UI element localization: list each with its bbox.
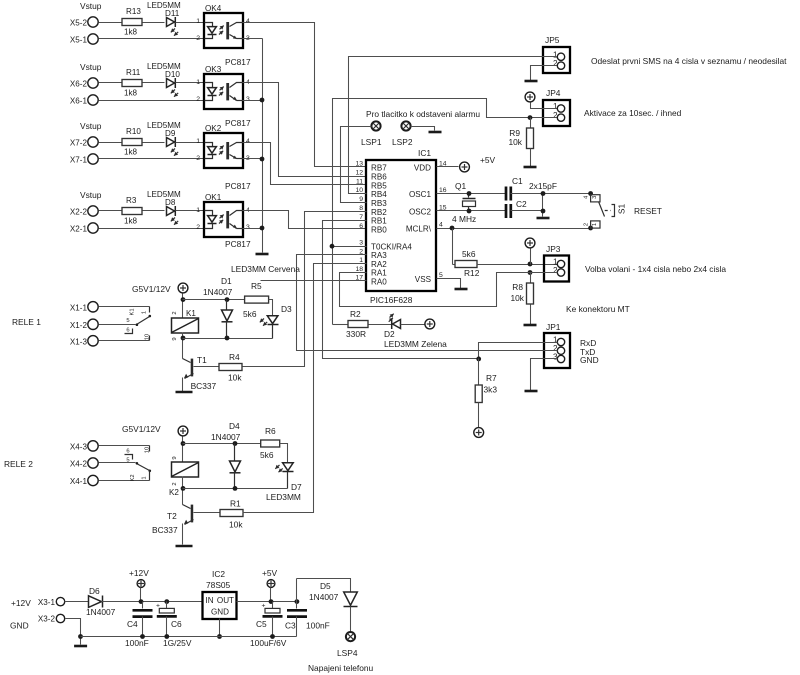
wire IC1 T0CKI tap to JP4 net (333, 246, 367, 248)
svg-text:1k8: 1k8 (124, 28, 138, 37)
svg-text:RA3: RA3 (371, 251, 387, 260)
node junction MCLR R12 (450, 226, 455, 231)
svg-text:10: 10 (355, 187, 363, 194)
ground T1 (176, 391, 193, 394)
svg-text:16: 16 (439, 187, 447, 194)
wire OK1 pin4 to IC1 RB0 (243, 211, 367, 229)
svg-text:5k6: 5k6 (462, 249, 476, 259)
svg-text:VSS: VSS (415, 275, 432, 284)
svg-text:RB7: RB7 (371, 163, 387, 172)
svg-text:T1: T1 (197, 355, 207, 365)
wire R1 to IC1 RA2 (243, 264, 367, 513)
svg-text:X2-2: X2-2 (70, 208, 88, 217)
svg-text:D7: D7 (291, 482, 302, 492)
svg-text:Vstup: Vstup (80, 1, 102, 11)
capacitor C3 100nF (296, 579, 298, 609)
node junction JP3 pin1 (528, 262, 533, 267)
svg-text:OK3: OK3 (205, 65, 222, 74)
svg-text:1: 1 (196, 18, 200, 25)
relay contact K1 (99, 306, 150, 308)
svg-text:X5-2: X5-2 (70, 19, 88, 28)
svg-text:RA1: RA1 (371, 269, 387, 278)
svg-text:Q1: Q1 (455, 181, 467, 191)
svg-text:100nF: 100nF (125, 638, 149, 648)
ground LSP2 (429, 131, 442, 134)
wire K1 coil bottom (182, 333, 184, 359)
svg-text:1k8: 1k8 (124, 89, 138, 98)
svg-text:X3-1: X3-1 (38, 598, 56, 607)
svg-text:D9: D9 (165, 129, 176, 138)
svg-text:1N4007: 1N4007 (203, 287, 233, 297)
svg-text:Vstup: Vstup (80, 121, 102, 131)
svg-text:4: 4 (246, 18, 250, 25)
svg-text:3: 3 (592, 196, 598, 199)
switch S1 RESET (588, 191, 593, 196)
terminal + K2 (178, 426, 188, 436)
svg-text:VDD: VDD (414, 164, 431, 173)
svg-text:R6: R6 (265, 426, 276, 436)
svg-text:Odeslat prvni SMS na 4 cisla v: Odeslat prvni SMS na 4 cisla v seznamu /… (591, 56, 787, 66)
ground R8 (524, 324, 537, 327)
wire T2 base to R1 (194, 512, 221, 514)
svg-text:R5: R5 (251, 281, 262, 291)
svg-text:R12: R12 (464, 268, 480, 278)
wire +5V rail (237, 601, 297, 603)
svg-text:LSP2: LSP2 (392, 137, 413, 147)
wire (99, 82, 123, 84)
svg-text:2: 2 (172, 311, 178, 314)
svg-text:Ke konektoru MT: Ke konektoru MT (566, 304, 630, 314)
relay contact K2 (99, 445, 150, 447)
svg-text:LSP4: LSP4 (337, 648, 358, 658)
svg-text:X6-1: X6-1 (70, 97, 88, 106)
wire ground rail (81, 636, 297, 638)
svg-text:10k: 10k (508, 137, 522, 147)
svg-text:RESET: RESET (634, 206, 662, 216)
wire IC1 RB1 to R7 node (323, 221, 479, 359)
terminal + JP4 (525, 92, 535, 102)
svg-text:OSC1: OSC1 (409, 190, 432, 199)
svg-text:1N4007: 1N4007 (211, 432, 241, 442)
svg-text:78S05: 78S05 (206, 580, 231, 590)
svg-text:JP5: JP5 (545, 35, 560, 45)
node junction crystal OSC2 (467, 209, 472, 214)
svg-text:2: 2 (196, 35, 200, 42)
wire OK2 pin4 to IC1 RB5 (243, 143, 367, 185)
svg-text:5k6: 5k6 (260, 450, 274, 460)
node junction K1 bottom (181, 336, 186, 341)
svg-text:D3: D3 (281, 304, 292, 314)
svg-text:9: 9 (172, 337, 178, 340)
svg-text:100uF/6V: 100uF/6V (250, 638, 287, 648)
svg-text:GND: GND (211, 608, 229, 617)
svg-text:3: 3 (246, 224, 250, 231)
svg-text:LED5MM: LED5MM (147, 190, 181, 199)
svg-text:X1-1: X1-1 (70, 303, 88, 312)
svg-text:PIC16F628: PIC16F628 (370, 295, 413, 305)
svg-text:5k6: 5k6 (243, 309, 257, 319)
svg-text:+5V: +5V (480, 155, 496, 165)
node junction C5 gnd (270, 634, 275, 639)
terminal + R7 (474, 428, 484, 438)
svg-text:Aktivace za 10sec. / ihned: Aktivace za 10sec. / ihned (584, 108, 682, 118)
svg-text:+12V: +12V (129, 568, 149, 578)
wire OK2 pin3 (243, 158, 263, 160)
svg-text:C6: C6 (171, 619, 182, 629)
svg-text:PC817: PC817 (225, 118, 251, 128)
svg-text:3: 3 (246, 96, 250, 103)
svg-text:2: 2 (196, 155, 200, 162)
svg-text:LED3MM: LED3MM (266, 492, 301, 502)
wire JP3 pin2 to IC1 RA1 (340, 273, 558, 307)
svg-text:1: 1 (553, 102, 558, 111)
svg-text:X2-1: X2-1 (70, 225, 88, 234)
svg-text:12: 12 (355, 170, 363, 177)
node junction input gnd (78, 634, 83, 639)
wire (99, 22, 123, 24)
wire JP5 pin1 to IC1 RB4 (349, 57, 557, 194)
wire to R2 (333, 324, 349, 326)
svg-text:RB6: RB6 (371, 172, 387, 181)
svg-text:6: 6 (126, 328, 129, 334)
node junction OK1 pin3 (260, 226, 265, 231)
svg-text:10k: 10k (510, 293, 524, 303)
svg-text:T0CKI/RA4: T0CKI/RA4 (371, 243, 412, 252)
node junction JP4 pin2 R9 (528, 115, 533, 120)
ground R9 (524, 166, 537, 169)
wire JP1 RxD to R7 node (479, 343, 558, 359)
svg-text:9: 9 (172, 456, 178, 459)
wire flyback top rail 2 (183, 443, 261, 445)
solder pad LSP1 (371, 121, 380, 130)
wire R12 to JP3 pin1 (477, 264, 558, 266)
svg-text:X3-2: X3-2 (38, 615, 56, 624)
svg-text:3k3: 3k3 (484, 385, 498, 395)
svg-text:1: 1 (553, 50, 558, 59)
svg-text:R2: R2 (350, 309, 361, 319)
ground input (74, 645, 87, 648)
solder pad LSP2 (401, 121, 410, 130)
svg-text:RB1: RB1 (371, 217, 387, 226)
svg-text:RB4: RB4 (371, 190, 387, 199)
svg-text:Volba volani - 1x4 cisla nebo: Volba volani - 1x4 cisla nebo 2x4 cisla (585, 264, 726, 274)
wire R4 to IC1 RB2 (243, 212, 367, 367)
svg-text:IC2: IC2 (212, 569, 225, 579)
svg-text:8: 8 (359, 205, 363, 212)
svg-text:OUT: OUT (217, 596, 234, 605)
wire (99, 100, 205, 102)
svg-text:RB2: RB2 (371, 208, 387, 217)
svg-text:10: 10 (145, 334, 151, 340)
svg-text:1: 1 (553, 336, 558, 345)
svg-text:1: 1 (142, 311, 148, 314)
svg-text:2x15pF: 2x15pF (529, 181, 557, 191)
wire JP4 pin2 net (333, 99, 557, 325)
wire flyback top rail 1 (183, 299, 245, 301)
relay coil K1 (172, 318, 199, 333)
svg-text:RA0: RA0 (371, 277, 387, 286)
terminal +5V at VDD (460, 162, 470, 172)
svg-text:IC1: IC1 (418, 148, 431, 158)
node junction +12V C4 (139, 599, 144, 604)
node junction R7 (476, 357, 481, 362)
svg-text:1k8: 1k8 (124, 148, 138, 157)
wire JP4 pin1 to + terminal (531, 103, 557, 109)
node junction T0CKI (330, 244, 335, 249)
wire (143, 82, 165, 84)
wire (176, 82, 205, 84)
wire OK4 pin4 to IC1 RB7 (243, 23, 367, 167)
capacitor C6 1G/25V electrolytic (166, 602, 168, 609)
wire (176, 210, 205, 212)
wire LSP2 to ground (411, 127, 435, 131)
svg-text:R10: R10 (126, 127, 141, 136)
svg-text:18: 18 (355, 266, 363, 273)
node junction D1 top (225, 297, 230, 302)
svg-text:10k: 10k (228, 373, 242, 383)
wire R5 to D3 (269, 300, 273, 317)
svg-text:1: 1 (196, 207, 200, 214)
svg-text:IN: IN (206, 596, 214, 605)
svg-text:5: 5 (439, 272, 443, 279)
wire C1 to S1 (511, 193, 591, 195)
wire C3 top to D5 (297, 579, 351, 593)
svg-text:OK2: OK2 (205, 124, 222, 133)
svg-text:X6-2: X6-2 (70, 80, 88, 89)
svg-text:RELE 2: RELE 2 (4, 459, 33, 469)
node junction crystal OSC1 (467, 191, 472, 196)
svg-text:D11: D11 (165, 9, 180, 18)
ground VSS (455, 288, 468, 291)
svg-text:D2: D2 (384, 329, 395, 339)
ground JP5 (525, 80, 538, 83)
wire (143, 142, 165, 144)
node junction D1 bottom (225, 336, 230, 341)
svg-text:OK4: OK4 (205, 4, 222, 13)
node junction C2 gnd (541, 209, 546, 214)
wire JP1 GND to ground (531, 359, 558, 391)
svg-text:MCLR\: MCLR\ (406, 225, 432, 234)
svg-text:C1: C1 (512, 176, 523, 186)
svg-text:1: 1 (592, 223, 598, 226)
svg-text:D4: D4 (229, 421, 240, 431)
ground oscillator (537, 217, 550, 220)
svg-text:10k: 10k (229, 520, 243, 530)
svg-text:Vstup: Vstup (80, 62, 102, 72)
svg-text:2: 2 (196, 224, 200, 231)
wire flyback bottom rail 2 (183, 488, 288, 490)
svg-text:4 MHz: 4 MHz (452, 214, 476, 224)
svg-text:K1: K1 (130, 308, 136, 315)
svg-text:X4-3: X4-3 (70, 442, 88, 451)
svg-text:R3: R3 (126, 196, 137, 205)
svg-text:G5V1/12V: G5V1/12V (122, 424, 161, 434)
wire (99, 228, 205, 230)
svg-text:RELE 1: RELE 1 (12, 317, 41, 327)
node junction IC2 gnd (217, 634, 222, 639)
svg-text:LED3MM Cervena: LED3MM Cervena (231, 264, 300, 274)
svg-text:+12V: +12V (11, 598, 31, 608)
wire MCLR to R12 (452, 229, 454, 265)
node junction OK2 pin3 (260, 157, 265, 162)
svg-text:11: 11 (356, 179, 363, 186)
wire (99, 142, 123, 144)
svg-text:BC337: BC337 (191, 381, 217, 391)
ground JP1 (525, 390, 538, 393)
svg-text:R1: R1 (230, 499, 241, 509)
svg-text:RB0: RB0 (371, 226, 387, 235)
wire (176, 22, 205, 24)
node junction D4 bottom (233, 486, 238, 491)
node junction C4 gnd (140, 634, 145, 639)
node junction K2 bottom (181, 486, 186, 491)
svg-text:D5: D5 (320, 581, 331, 591)
svg-text:1: 1 (196, 79, 200, 86)
node junction OK3 pin3 (260, 98, 265, 103)
wire OK1 pin3 (243, 228, 263, 230)
svg-text:S1: S1 (617, 204, 627, 215)
node junction JP3 pin2 (528, 270, 533, 275)
svg-text:R8: R8 (512, 282, 523, 292)
svg-text:X7-1: X7-1 (70, 156, 88, 165)
svg-text:2: 2 (583, 223, 589, 226)
wire OSC1 line (437, 193, 506, 195)
wire (99, 158, 205, 160)
svg-text:3: 3 (359, 240, 363, 247)
svg-text:X4-1: X4-1 (70, 477, 88, 486)
wire + to JP3 pin1 (530, 249, 532, 265)
svg-text:X4-2: X4-2 (70, 460, 88, 469)
svg-text:5: 5 (126, 318, 129, 324)
svg-text:Vstup: Vstup (80, 190, 102, 200)
wire (143, 210, 165, 212)
svg-text:4: 4 (439, 222, 443, 229)
svg-text:1G/25V: 1G/25V (163, 638, 192, 648)
wire OSC2 line (437, 210, 506, 212)
wire +12V rail (102, 601, 203, 603)
wire flyback bottom rail 1 (183, 338, 273, 340)
svg-text:RA2: RA2 (371, 260, 387, 269)
wire K2 coil top (182, 437, 184, 463)
svg-text:6: 6 (359, 223, 363, 230)
svg-text:JP3: JP3 (546, 244, 561, 254)
svg-text:+5V: +5V (262, 568, 278, 578)
wire VDD (437, 166, 459, 168)
node junction K2 top (181, 441, 186, 446)
svg-text:6: 6 (126, 449, 129, 455)
wire MCLR to S1 (437, 228, 591, 230)
svg-text:1: 1 (196, 138, 200, 145)
svg-text:PC817: PC817 (225, 57, 251, 67)
node junction K1 top (181, 297, 186, 302)
svg-text:2: 2 (553, 111, 558, 120)
node junction C1 gnd (541, 191, 546, 196)
wire TxD net to IC1 RA3 (297, 255, 558, 351)
svg-text:R13: R13 (126, 7, 141, 16)
ground T2 (176, 545, 193, 548)
wire X3-2 to ground rail (66, 619, 81, 645)
svg-text:X1-3: X1-3 (70, 337, 88, 346)
svg-text:13: 13 (355, 161, 363, 168)
wire C2 to ground (511, 210, 543, 212)
wire (143, 22, 165, 24)
svg-text:C2: C2 (516, 199, 527, 209)
svg-text:Pro tlacitko k odstaveni alarm: Pro tlacitko k odstaveni alarmu (366, 109, 480, 119)
svg-text:BC337: BC337 (152, 525, 178, 535)
svg-text:10: 10 (145, 447, 151, 453)
wire R2 to D2 (369, 324, 392, 326)
svg-text:JP1: JP1 (546, 322, 561, 332)
svg-text:2: 2 (553, 59, 558, 68)
svg-text:4: 4 (246, 138, 250, 145)
node junction +5V C5 (269, 599, 274, 604)
svg-text:X7-2: X7-2 (70, 139, 88, 148)
svg-text:T2: T2 (167, 511, 177, 521)
svg-text:D6: D6 (89, 586, 100, 596)
relay coil K2 (172, 462, 199, 477)
svg-text:G5V1/12V: G5V1/12V (132, 284, 171, 294)
wire IC2 GND (219, 619, 221, 637)
svg-text:1k8: 1k8 (124, 217, 138, 226)
wire OK3 pin3 (243, 100, 263, 102)
svg-text:RB3: RB3 (371, 199, 387, 208)
node junction C6 gnd (164, 634, 169, 639)
svg-text:K2: K2 (130, 474, 136, 481)
svg-text:D10: D10 (165, 70, 180, 79)
wire RA0 stub (261, 280, 367, 282)
svg-text:PC817: PC817 (225, 239, 251, 249)
svg-text:LED3MM Zelena: LED3MM Zelena (384, 339, 447, 349)
svg-text:X1-2: X1-2 (70, 321, 88, 330)
wire OK3 pin4 to IC1 RB6 (243, 83, 367, 177)
wire R6 to D7 (280, 444, 288, 463)
svg-text:7: 7 (359, 214, 363, 221)
svg-text:330R: 330R (346, 329, 366, 339)
svg-text:GND: GND (580, 355, 599, 365)
LED D2 LED3MM Zelena (390, 314, 394, 318)
wire opto emitter ground bus (243, 38, 263, 40)
svg-text:C3: C3 (285, 621, 296, 631)
svg-text:K1: K1 (186, 309, 196, 318)
wire D2 to terminal (401, 324, 425, 326)
svg-text:OK1: OK1 (205, 193, 222, 202)
terminal + K1 (178, 283, 188, 293)
wire VSS to ground (437, 279, 461, 289)
wire cap ground stem (542, 194, 544, 217)
svg-text:R7: R7 (486, 373, 497, 383)
terminal + D2 (425, 319, 435, 329)
wire LSP1 to IC1 RB3 (341, 127, 372, 203)
svg-text:K2: K2 (169, 488, 179, 497)
svg-text:LED5MM: LED5MM (147, 121, 181, 130)
wire X3-1 to D6 (65, 601, 89, 603)
svg-text:R11: R11 (126, 68, 141, 77)
node junction D4 top (233, 441, 238, 446)
ground opto bus (256, 253, 269, 256)
svg-text:2: 2 (553, 266, 558, 275)
svg-text:GND: GND (10, 621, 29, 631)
svg-text:OSC2: OSC2 (409, 208, 432, 217)
capacitor C5 100uF/6V electrolytic (272, 602, 274, 609)
svg-text:2: 2 (172, 482, 178, 485)
svg-text:1N4007: 1N4007 (86, 607, 116, 617)
wire K2 coil bottom (182, 477, 184, 505)
node junction C3 rail (295, 599, 300, 604)
terminal + JP3 (525, 238, 535, 248)
wire T1 base to R4 (194, 366, 219, 368)
wire (99, 210, 123, 212)
svg-text:Napajeni telefonu: Napajeni telefonu (308, 663, 374, 673)
